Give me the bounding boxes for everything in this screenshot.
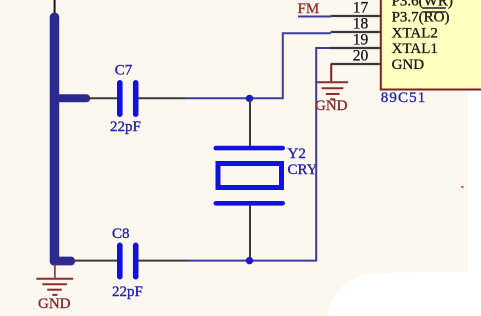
pin label P3.6 WR underline mark xyxy=(422,7,445,9)
capacitor C8 plates xyxy=(117,243,139,280)
svg-text:20: 20 xyxy=(353,47,369,64)
white patch bottom-right xyxy=(326,271,481,316)
svg-text:FM: FM xyxy=(298,1,320,17)
pin 20 stub xyxy=(331,63,381,65)
pin label P3.7 RO overline xyxy=(422,11,445,13)
ground symbol right xyxy=(317,82,348,99)
bus stub to C7 xyxy=(54,94,90,102)
svg-text:XTAL2: XTAL2 xyxy=(392,25,438,41)
pin 18 stub xyxy=(331,31,381,33)
junction node at C7 / crystal top xyxy=(246,95,253,102)
svg-text:GND: GND xyxy=(392,57,425,73)
svg-text:18: 18 xyxy=(353,15,369,32)
crystal Y2 top pin xyxy=(249,98,251,146)
white margin strip right xyxy=(468,90,481,316)
svg-text:22pF: 22pF xyxy=(112,284,143,300)
capacitor C7 plates xyxy=(117,80,139,117)
crystal Y2 plates and body xyxy=(214,146,286,206)
pin 20 ground drop wire xyxy=(330,64,332,81)
ground symbol left xyxy=(36,264,73,295)
svg-text:22pF: 22pF xyxy=(110,119,141,135)
red speck artifact xyxy=(461,186,464,188)
capacitor C7 left pin xyxy=(86,97,117,99)
IC U1 89C51 body xyxy=(381,0,481,90)
svg-text:XTAL1: XTAL1 xyxy=(392,41,438,57)
svg-text:C7: C7 xyxy=(115,63,133,79)
wire net XTAL2 horizontal at C7 row xyxy=(186,33,331,98)
svg-text:17: 17 xyxy=(353,0,369,16)
svg-text:GND: GND xyxy=(38,296,71,312)
pin 19 stub xyxy=(331,47,381,49)
wire net FM to pin 17 xyxy=(298,16,331,18)
capacitor C8 right pin xyxy=(139,260,188,262)
svg-text:C8: C8 xyxy=(112,226,130,242)
svg-text:Y2: Y2 xyxy=(288,146,306,162)
capacitor C7 right pin xyxy=(139,97,186,99)
svg-text:19: 19 xyxy=(353,31,369,48)
svg-text:89C51: 89C51 xyxy=(381,90,427,106)
svg-text:CRY: CRY xyxy=(288,162,318,178)
pin 17 stub xyxy=(331,15,381,17)
bus stub to C8 xyxy=(50,257,75,266)
wire net XTAL1 bottom rail xyxy=(187,48,331,261)
capacitor C8 left pin xyxy=(74,260,117,262)
crystal Y2 bottom pin xyxy=(249,206,251,261)
wire into bus top xyxy=(54,0,56,15)
ground bus vertical bar xyxy=(50,13,60,266)
junction node at C8 / crystal bottom xyxy=(246,257,253,264)
svg-text:GND: GND xyxy=(315,98,348,114)
